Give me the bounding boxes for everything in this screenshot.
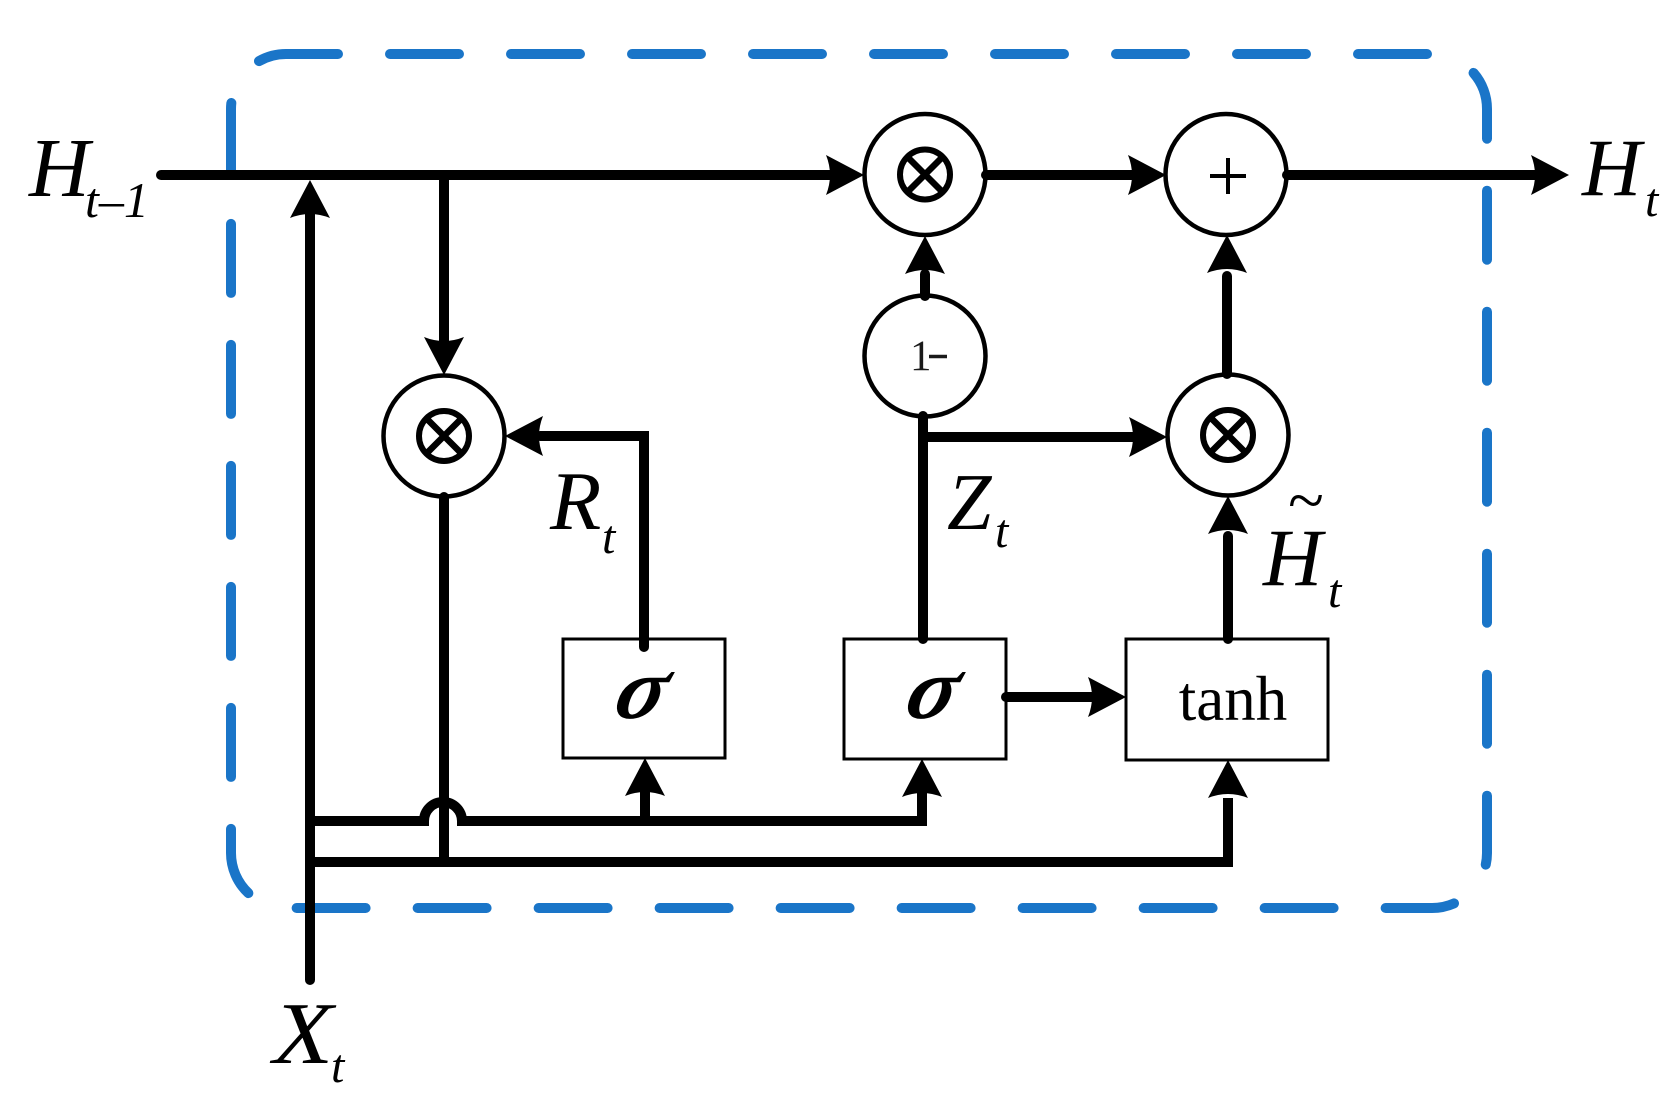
arrowhead: R_t into mul1 right <box>505 416 543 456</box>
arrowhead: upper bus into sigma2 <box>902 759 942 797</box>
wire: mul1 output down to lower bus <box>439 497 449 862</box>
wire: upper X bus with hop over mul1 line <box>310 792 922 821</box>
arrowhead: into mul2 bottom <box>905 236 945 274</box>
arrowhead: output H_t <box>1531 155 1569 195</box>
op add plus sign <box>1210 158 1246 194</box>
wire: R_t feedback from sigma1 <box>540 436 644 647</box>
arrowhead: into add bottom <box>1207 235 1247 273</box>
wire: X_t vertical input <box>305 211 315 980</box>
arrowhead: into mul3 bottom <box>1208 496 1248 534</box>
wire: lower X bus to tanh <box>310 798 1228 862</box>
box sigma2 <box>844 639 1006 759</box>
op-circle one-minus <box>865 296 986 417</box>
svg-text:H: H <box>1262 512 1326 603</box>
arrowhead: into add <box>1128 155 1166 195</box>
arrowhead: main line into mul2 <box>826 155 864 195</box>
op-circle mul2 inner <box>900 150 950 200</box>
op-circle mul1 outer <box>384 376 505 497</box>
arrowhead: into mul1 top <box>424 337 464 375</box>
svg-text:H: H <box>1581 122 1645 213</box>
svg-text:R: R <box>549 455 601 548</box>
svg-text:t: t <box>1328 565 1343 618</box>
wire: tanh up to mul3 <box>1223 536 1233 639</box>
svg-text:X: X <box>269 986 338 1083</box>
op-circle add <box>1166 114 1287 235</box>
op-circle mul3 cross <box>1212 419 1244 451</box>
op-circle mul1 cross <box>428 420 460 452</box>
svg-text:t: t <box>602 511 617 564</box>
box sigma1 <box>563 639 725 758</box>
label sigma1 <box>605 640 685 737</box>
wire: mul3 up to add <box>1222 276 1232 374</box>
wire: Z branch to mul3 <box>923 432 1136 442</box>
arrowhead: into tanh bottom <box>1208 760 1248 798</box>
op-circle mul1 inner <box>419 411 469 461</box>
svg-text:1: 1 <box>910 333 932 380</box>
op-circle mul3 inner <box>1203 410 1253 460</box>
boundary: blue dashed GRU cell border <box>231 54 1487 908</box>
wire: Z_t vertical from one-minus to sigma2 <box>918 416 928 639</box>
arrowhead: into sigma1 bottom <box>625 758 665 796</box>
box tanh <box>1126 639 1328 760</box>
arrowhead: X_t into main line <box>290 180 330 218</box>
wire: branch up into sigma1 <box>640 792 650 821</box>
op-circle mul2 outer <box>865 114 986 235</box>
op-circle mul2 cross <box>909 159 941 191</box>
label X_t <box>269 986 338 1083</box>
wire: sigma2 to tanh <box>1006 692 1096 702</box>
svg-text:tanh: tanh <box>1179 664 1287 734</box>
svg-text:t–1: t–1 <box>85 172 149 228</box>
arrowhead: into mul3 left <box>1129 417 1167 457</box>
wire: add output to H_t <box>1287 170 1539 180</box>
wire: mul2 output to add <box>986 170 1136 180</box>
wire: H_{t-1} main line into mul2 <box>161 170 834 180</box>
wire: one-minus up to mul2 <box>920 274 930 296</box>
arrowhead: into tanh left <box>1088 677 1126 717</box>
svg-text:t: t <box>331 1040 346 1093</box>
label sigma2 <box>896 640 976 737</box>
wire: branch from main line down toward mul1 <box>439 175 449 345</box>
svg-text:Z: Z <box>947 459 993 547</box>
svg-text:t: t <box>1645 174 1660 227</box>
op-circle mul3 outer <box>1168 375 1289 496</box>
svg-text:t: t <box>995 505 1010 558</box>
